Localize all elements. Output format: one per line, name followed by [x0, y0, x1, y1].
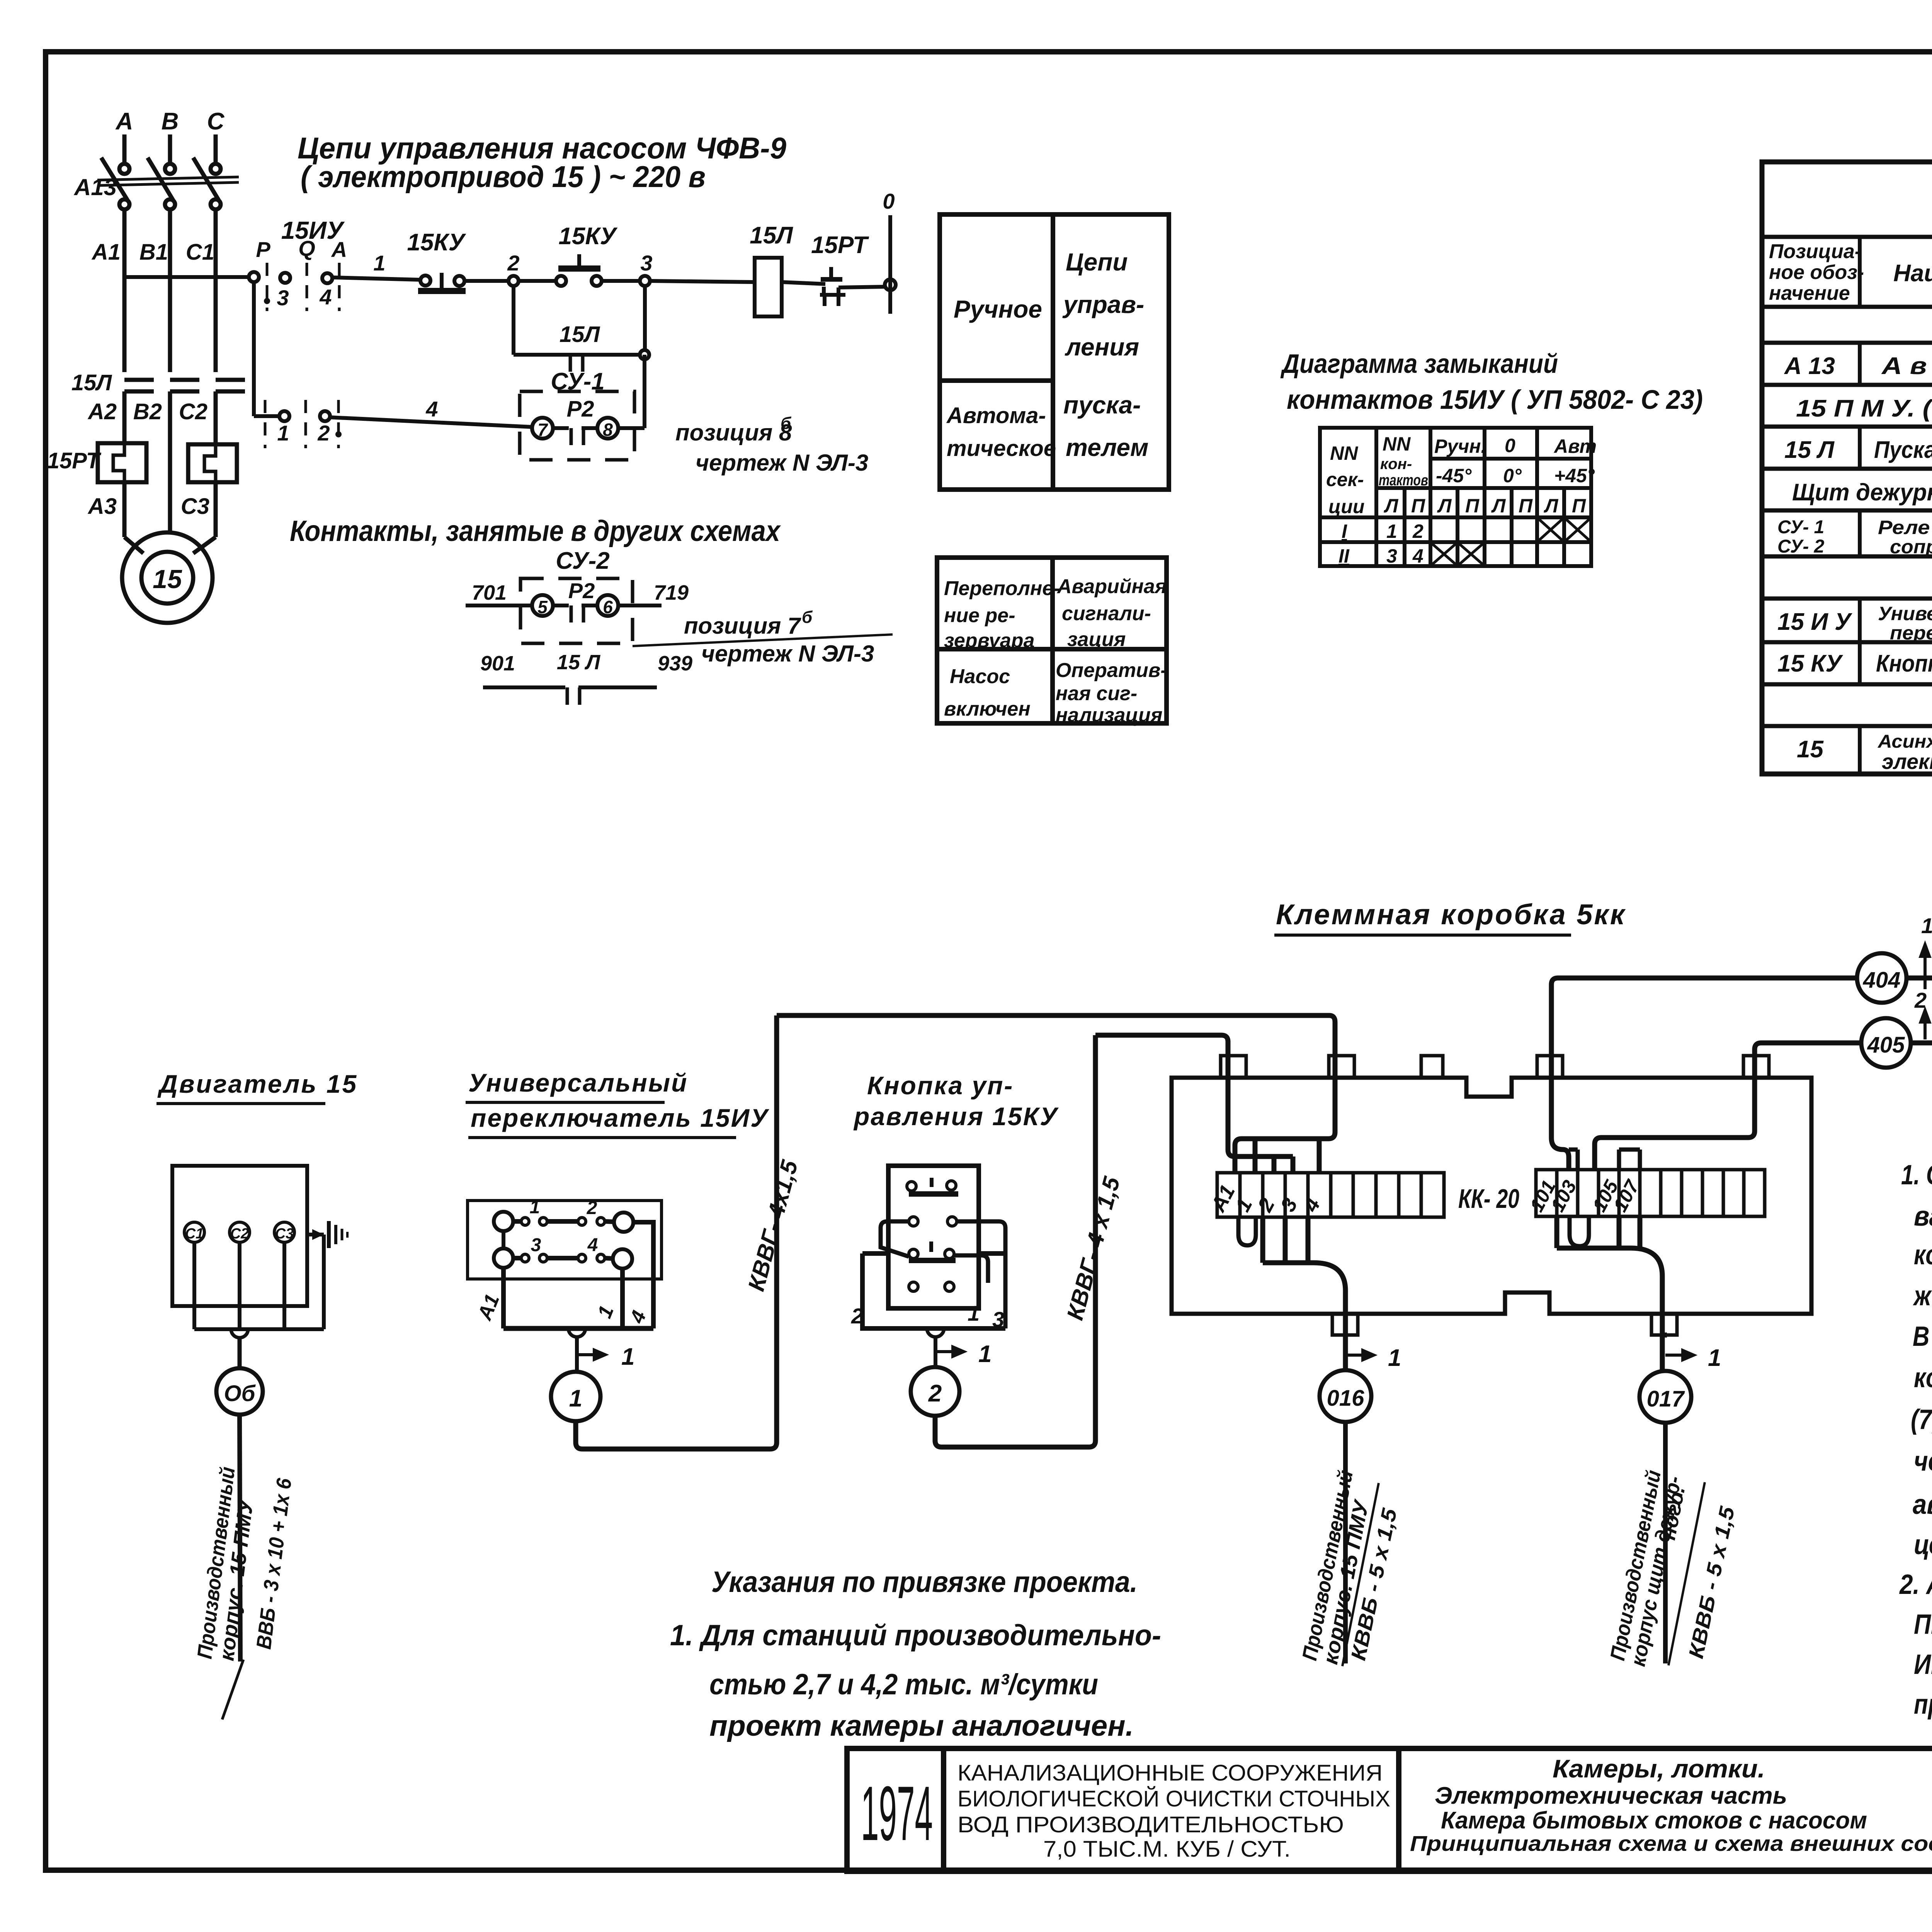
svg-text:I: I	[1342, 520, 1347, 542]
svg-text:б: б	[802, 608, 813, 627]
svg-text:позиция 8: позиция 8	[675, 420, 792, 446]
cable 016 down wire	[1343, 1422, 1348, 1663]
svg-text:В1: В1	[139, 240, 168, 265]
svg-text:Контакты, занятые в других: Контакты, занятые в других схемах	[290, 515, 781, 548]
wiring right	[957, 1221, 1005, 1328]
svg-text:Камеры, лотки.: Камеры, лотки.	[1553, 1754, 1765, 1783]
svg-text:1: 1	[1388, 1345, 1401, 1371]
svg-text:1: 1	[373, 251, 385, 275]
node 3	[640, 276, 650, 286]
svg-text:0: 0	[883, 189, 895, 213]
svg-text:4: 4	[587, 1235, 598, 1255]
cable id circle 016	[1320, 1370, 1371, 1422]
svg-text:901: 901	[480, 652, 515, 675]
svg-text:А2: А2	[87, 399, 117, 424]
wire phase C2	[214, 391, 218, 444]
svg-text:Универсальный: Универсальный	[1878, 603, 1932, 624]
svg-text:016: 016	[1327, 1386, 1365, 1411]
mounting tab	[1421, 1056, 1443, 1078]
svg-text:15 Л: 15 Л	[1784, 437, 1835, 463]
svg-text:1: 1	[569, 1385, 582, 1412]
svg-text:15: 15	[1797, 736, 1824, 763]
svg-text:2: 2	[1412, 520, 1423, 542]
ground conductor	[307, 1233, 324, 1236]
svg-text:Ручное: Ручное	[954, 295, 1042, 323]
wires below right strip to cable 017	[1557, 1216, 1640, 1248]
svg-text:тактов: тактов	[1379, 472, 1428, 489]
svg-text:ПМЕ-222, реле контроля с: ПМЕ-222, реле контроля сопротивлений	[1914, 1609, 1932, 1640]
svg-text:управ-: управ-	[1062, 291, 1144, 318]
svg-text:пуска-: пуска-	[1063, 391, 1141, 419]
svg-text:1: 1	[530, 1197, 540, 1218]
svg-text:Переполне-: Переполне-	[944, 577, 1060, 600]
component row dividers	[1860, 343, 1932, 385]
svg-text:Р2: Р2	[567, 396, 594, 422]
cable id circle 017	[1639, 1371, 1691, 1423]
terminal С2	[230, 1222, 250, 1242]
switch 15ИУ contact 1-2 (lower row)	[279, 411, 289, 421]
svg-text:чертеж N ЭЛ-3: чертеж N ЭЛ-3	[701, 641, 874, 667]
svg-text:Л: Л	[1491, 495, 1506, 517]
leader line to позиция 7б	[633, 634, 893, 646]
svg-text:1: 1	[1386, 520, 1397, 542]
svg-text:404: 404	[1863, 968, 1901, 993]
mounting tab	[1329, 1056, 1354, 1078]
svg-text:3: 3	[992, 1307, 1004, 1332]
button NO contact	[909, 1249, 918, 1259]
svg-text:Электротехническая часть: Электротехническая часть	[1435, 1782, 1787, 1809]
wire coil to 15РТ contact	[782, 282, 825, 284]
wire А1	[501, 1268, 506, 1328]
svg-text:6: 6	[603, 597, 613, 617]
jumper hook under right terminals	[1570, 1216, 1589, 1246]
bottom terminals	[909, 1282, 918, 1291]
svg-text:ние ре-: ние ре-	[944, 604, 1015, 627]
svg-text:NN: NN	[1330, 442, 1358, 464]
motor cable down wire	[240, 1415, 240, 1662]
svg-text:Л: Л	[1437, 495, 1452, 517]
svg-text:КАНАЛИЗАЦИОННЫЕ СООРУЖЕНИЯ: КАНАЛИЗАЦИОННЫЕ СООРУЖЕНИЯ	[957, 1760, 1383, 1786]
cable gland bump	[927, 1328, 944, 1337]
svg-text:Q: Q	[298, 236, 315, 260]
svg-text:Р: Р	[256, 237, 270, 262]
signal table (Переполнение/Аварийная)	[937, 558, 1167, 723]
svg-text:4: 4	[1412, 545, 1423, 567]
svg-text:позиция 7: позиция 7	[684, 613, 801, 639]
wire phase B1	[168, 209, 172, 372]
svg-text:ческого управления ; Н О кон: ческого управления ; Н О контакт (5,6) д…	[1914, 1446, 1932, 1477]
wire phase A3	[122, 482, 127, 537]
wire 1	[620, 1269, 625, 1328]
svg-text:чертеж N ЭЛ-3: чертеж N ЭЛ-3	[696, 450, 868, 476]
svg-text:Позициа-: Позициа-	[1769, 240, 1861, 263]
link between poles	[502, 1231, 505, 1248]
svg-text:017: 017	[1647, 1386, 1685, 1412]
svg-text:7: 7	[537, 420, 548, 440]
wire from button cable into box (wire B)	[1095, 1035, 1293, 1156]
svg-text:Л: Л	[1544, 495, 1559, 517]
svg-text:5: 5	[537, 597, 548, 617]
relay СУ-1 contact 7-8	[532, 418, 553, 439]
ground symbol	[327, 1221, 331, 1248]
contact row 1-2	[494, 1212, 513, 1231]
header column dividers	[1860, 237, 1932, 774]
svg-text:3: 3	[1386, 545, 1397, 567]
svg-text:1: 1	[1708, 1345, 1721, 1371]
closure X marks row I	[1539, 519, 1563, 541]
cable id circle 405	[1861, 1018, 1911, 1068]
arrow direction 1 (left cable)	[1345, 1350, 1374, 1360]
svg-text:15Л: 15Л	[560, 322, 600, 347]
svg-text:С2: С2	[179, 399, 207, 424]
wire stubs into terminals 103-107	[1578, 1150, 1640, 1170]
svg-text:939: 939	[658, 652, 692, 675]
svg-text:Реле контроля: Реле контроля	[1878, 517, 1932, 538]
svg-text:15 КУ: 15 КУ	[1777, 650, 1843, 677]
svg-text:Универсальный: Универсальный	[468, 1068, 688, 1097]
cable 404 wire right	[1906, 976, 1932, 981]
bottom cable gland right	[1651, 1314, 1677, 1335]
svg-text:переключатель: переключатель	[1890, 622, 1932, 644]
mounting tab	[1743, 1056, 1769, 1078]
svg-text:15 П М У. ( В производс: 15 П М У. ( В производственном корпусе)	[1796, 395, 1932, 422]
cable gland bump	[231, 1329, 248, 1338]
svg-text:1: 1	[621, 1344, 634, 1370]
svg-text:-45°: -45°	[1436, 465, 1472, 486]
svg-text:проект камеры аналогичен.: проект камеры аналогичен.	[709, 1709, 1134, 1742]
svg-text:3: 3	[277, 286, 289, 310]
svg-text:Кнопка уп-: Кнопка уп-	[867, 1071, 1014, 1100]
svg-text:П: П	[1465, 495, 1480, 517]
svg-text:П: П	[1572, 495, 1586, 517]
wire 4	[633, 1222, 653, 1328]
wire 404 into box	[1551, 978, 1857, 1170]
wire branch into terminal 2	[1272, 1156, 1277, 1173]
svg-text:переключатель 15ИУ: переключатель 15ИУ	[471, 1104, 769, 1132]
button outer box	[862, 1253, 1005, 1328]
svg-text:СУ- 1: СУ- 1	[1777, 517, 1824, 537]
contact closure diagram table	[1320, 428, 1591, 566]
svg-text:нализация: нализация	[1056, 704, 1163, 726]
jumper hook under terminals	[1238, 1217, 1256, 1245]
cable id circle 2	[911, 1367, 959, 1416]
wire phase C3	[214, 482, 218, 537]
svg-text:ное обоз-: ное обоз-	[1769, 261, 1864, 284]
svg-text:Диаграмма замыканий: Диаграмма замыканий	[1281, 349, 1558, 379]
svg-text:А3: А3	[87, 494, 117, 519]
svg-text:Цепи: Цепи	[1066, 248, 1128, 276]
svg-text:2: 2	[928, 1380, 942, 1407]
terminal strip КК-20 left block	[1217, 1173, 1444, 1217]
svg-text:вается как ручное, так: вается как ручное, так и автоматичес-	[1914, 1201, 1932, 1232]
svg-text:С1: С1	[186, 240, 214, 265]
svg-text:ции: ции	[1328, 496, 1364, 517]
arrow direction 1 (right cable)	[1665, 1350, 1694, 1360]
svg-text:1. Схемой управления насосом: 1. Схемой управления насосом предусматри…	[1901, 1160, 1932, 1190]
svg-text:1: 1	[968, 1301, 980, 1325]
arrow direction 1	[577, 1350, 605, 1359]
svg-text:П: П	[1519, 495, 1533, 517]
svg-text:15 И У: 15 И У	[1777, 609, 1852, 635]
terminal С1	[184, 1222, 204, 1242]
node 2	[509, 276, 519, 286]
svg-text:С3: С3	[181, 494, 209, 519]
svg-text:ВОД ПРОИЗВОДИТЕЛЬНОСТЬЮ: ВОД ПРОИЗВОДИТЕЛЬНОСТЬЮ	[957, 1812, 1344, 1837]
svg-text:0°: 0°	[1503, 465, 1522, 486]
svg-text:15РТ: 15РТ	[811, 232, 869, 259]
svg-text:701: 701	[472, 581, 507, 604]
cable run to terminal box	[576, 1015, 777, 1449]
svg-text:кое управление в зависимости: кое управление в зависимости от уровня	[1914, 1240, 1932, 1270]
wire to node 2	[464, 279, 509, 283]
cable gland bump	[568, 1328, 585, 1337]
svg-text:цепь аварийной сигнализац: цепь аварийной сигнализации.	[1914, 1529, 1932, 1560]
svg-text:719: 719	[654, 581, 689, 604]
svg-text:включен: включен	[944, 698, 1031, 720]
closure X marks row II	[1432, 544, 1456, 565]
circuit breaker A13	[119, 164, 129, 174]
project name	[957, 1760, 1390, 1862]
svg-text:А: А	[331, 237, 347, 262]
wire 4	[330, 417, 532, 427]
bottom cable gland left	[1332, 1314, 1358, 1335]
cable run to terminal box	[935, 1035, 1095, 1447]
svg-text:ления: ления	[1065, 333, 1139, 361]
svg-text:КК- 20: КК- 20	[1458, 1184, 1519, 1214]
svg-text:жидкости в резервуаре.: жидкости в резервуаре.	[1913, 1281, 1932, 1311]
svg-text:аварийного уровня СУ-2: аварийного уровня СУ-2 задействовать в	[1913, 1489, 1932, 1520]
button 15КУ inner body	[888, 1166, 979, 1308]
svg-text:Камера бытовых стоков с на: Камера бытовых стоков с насосом	[1441, 1807, 1867, 1834]
cable 405 wire right	[1911, 1041, 1932, 1046]
switch 15ИУ body	[468, 1201, 662, 1279]
svg-text:контактов 15ИУ ( УП 5802- С: контактов 15ИУ ( УП 5802- С 23)	[1287, 384, 1703, 415]
svg-text:15Л: 15Л	[71, 370, 112, 395]
wire phase C1	[214, 209, 218, 372]
svg-text:А13: А13	[73, 174, 117, 200]
svg-text:В2: В2	[133, 399, 162, 424]
cable id circle 404	[1857, 953, 1906, 1003]
wire phase A1	[122, 209, 127, 372]
svg-text:4: 4	[319, 285, 332, 309]
svg-text:15КУ: 15КУ	[407, 229, 466, 256]
svg-text:15Л: 15Л	[750, 222, 793, 249]
svg-text:1974: 1974	[861, 1770, 933, 1857]
cable id circle 1	[551, 1372, 600, 1421]
terminal strip КК-20 right block	[1536, 1170, 1765, 1216]
wire from bus down to lower contact row	[252, 282, 256, 416]
cable 016 labels	[1298, 1468, 1401, 1666]
arrow up 1/2	[1921, 945, 1929, 989]
svg-text:4: 4	[425, 397, 438, 421]
svg-text:б: б	[781, 414, 792, 433]
svg-text:В: В	[162, 108, 179, 135]
svg-text:2: 2	[851, 1304, 863, 1328]
svg-text:Р2: Р2	[568, 578, 595, 603]
svg-text:А: А	[115, 108, 133, 135]
title block	[847, 1748, 1932, 1871]
svg-text:2: 2	[587, 1198, 597, 1218]
svg-text:Принципиальная схема и схем: Принципиальная схема и схема внешних сое…	[1410, 1831, 1932, 1855]
svg-text:2: 2	[507, 251, 519, 275]
sheet name	[1410, 1754, 1932, 1855]
svg-text:В качестве датчика уровня: В качестве датчика уровня применено реле	[1913, 1321, 1932, 1352]
svg-text:начение: начение	[1769, 282, 1850, 304]
svg-text:15КУ: 15КУ	[558, 223, 617, 250]
svg-text:405: 405	[1867, 1032, 1905, 1058]
mounting tab	[1537, 1056, 1563, 1078]
svg-text:Наименование: Наименование	[1893, 260, 1932, 287]
svg-text:электродвигатель: электродвигатель	[1882, 749, 1932, 774]
svg-text:Насос: Насос	[950, 665, 1010, 688]
binding instructions	[670, 1566, 1161, 1742]
svg-text:С2: С2	[230, 1226, 249, 1242]
svg-text:3: 3	[531, 1235, 541, 1255]
svg-text:сопротивлениц: сопротивлениц	[1890, 536, 1932, 558]
terminal С3	[274, 1222, 294, 1242]
svg-text:Пускатель магнитный: Пускатель магнитный	[1874, 437, 1932, 463]
svg-text:ИКС - 2 Н учтены в заказно: ИКС - 2 Н учтены в заказной спецификации	[1914, 1649, 1932, 1680]
cable 017 down wire	[1663, 1423, 1668, 1663]
svg-text:С1: С1	[185, 1226, 204, 1242]
wire phase A2	[122, 391, 127, 443]
wire phase B2	[168, 391, 172, 533]
svg-text:1. Для станций производи: 1. Для станций производительно-	[670, 1619, 1161, 1652]
svg-text:1: 1	[277, 421, 289, 445]
terminal labels А1 1 2 3 4	[1206, 1181, 1325, 1216]
wire from contact 8 up to node	[618, 426, 645, 430]
svg-text:БИОЛОГИЧЕСКОЙ ОЧИСТКИ СТОЧНЫ: БИОЛОГИЧЕСКОЙ ОЧИСТКИ СТОЧНЫХ	[957, 1786, 1390, 1811]
svg-text:Клеммная коробка 5кк: Клеммная коробка 5кк	[1276, 898, 1626, 930]
svg-text:Аварийная: Аварийная	[1056, 575, 1167, 598]
parts list table (Перечень элементов)	[1762, 162, 1932, 774]
wire to cable circle	[575, 1337, 579, 1372]
svg-text:производственного корпуса.: производственного корпуса.	[1914, 1689, 1932, 1720]
wires from terminals to cable	[194, 1235, 324, 1329]
svg-text:А 13: А 13	[1784, 353, 1835, 379]
svg-text:8: 8	[603, 420, 613, 440]
svg-text:Л: Л	[1384, 495, 1399, 517]
motor terminal box	[172, 1166, 307, 1306]
motor cable labels	[193, 1466, 296, 1662]
svg-text:СУ-2: СУ-2	[556, 548, 610, 574]
svg-text:зация: зация	[1067, 628, 1126, 651]
svg-text:( электропривод 15 ) ~ 220 в: ( электропривод 15 ) ~ 220 в	[301, 160, 706, 194]
mode table (Ручное/Автоматическое)	[940, 214, 1169, 490]
svg-text:Двигатель 15: Двигатель 15	[157, 1070, 358, 1098]
svg-text:Щит дежурного ( В произ: Щит дежурного ( В производственном корпу…	[1792, 479, 1932, 506]
svg-text:ная сиг-: ная сиг-	[1056, 682, 1137, 705]
contact row 3-4	[494, 1248, 513, 1268]
wire to cable circle	[238, 1338, 242, 1368]
svg-text:зервуара: зервуара	[944, 629, 1034, 652]
svg-text:NN: NN	[1383, 433, 1411, 455]
svg-text:Автома-: Автома-	[946, 403, 1046, 428]
wires below left strip to cable 016	[1263, 1217, 1308, 1263]
svg-text:1: 1	[1921, 913, 1932, 938]
svg-text:А1: А1	[91, 240, 121, 265]
wire from switch cable into box (wire A)	[777, 1015, 1335, 1173]
svg-text:15: 15	[153, 565, 182, 594]
wire branch into terminal 4	[1317, 1139, 1322, 1173]
svg-text:контроля сопротивлений ИКС: контроля сопротивлений ИКС- 2Н. Н.О конт…	[1914, 1362, 1932, 1393]
wire 1	[332, 277, 420, 280]
cable 017 labels	[1606, 1468, 1739, 1668]
svg-text:сек-: сек-	[1326, 469, 1364, 490]
svg-text:7,0 ТЫС.М. КУБ / СУТ.: 7,0 ТЫС.М. КУБ / СУТ.	[1043, 1837, 1291, 1862]
wire branch into terminal 3	[1291, 1156, 1296, 1173]
svg-text:СУ- 2: СУ- 2	[1777, 536, 1825, 557]
wire 405 into box	[1595, 1043, 1861, 1170]
svg-text:С: С	[207, 108, 225, 135]
svg-text:тическое: тическое	[947, 436, 1056, 461]
svg-text:Ручн.: Ручн.	[1434, 435, 1486, 457]
svg-text:равления 15КУ: равления 15КУ	[853, 1102, 1059, 1131]
svg-text:+45°: +45°	[1554, 465, 1595, 486]
svg-text:15РТ: 15РТ	[47, 448, 102, 473]
svg-text:Указания по привязке проекта.: Указания по привязке проекта.	[711, 1566, 1138, 1599]
svg-text:Кнопка управления: Кнопка управления	[1876, 650, 1932, 677]
thermal relay 15РТ heater phase C	[188, 444, 237, 482]
svg-text:сигнали-: сигнали-	[1062, 602, 1151, 625]
arrow direction 1	[935, 1347, 964, 1356]
cable id circle Об	[216, 1368, 263, 1415]
svg-text:С3: С3	[275, 1226, 294, 1242]
wire control bus from phase A	[124, 275, 249, 279]
mounting tab	[1221, 1056, 1246, 1078]
svg-text:А в т о м а т: А в т о м а т	[1881, 353, 1932, 379]
cable bottom bus	[503, 1326, 653, 1331]
svg-text:2: 2	[317, 421, 330, 445]
svg-text:П: П	[1411, 495, 1425, 517]
svg-text:Авт: Авт	[1553, 435, 1597, 457]
svg-text:стью 2,7 и 4,2 тыс. м³/сутки: стью 2,7 и 4,2 тыс. м³/сутки	[709, 1668, 1098, 1701]
svg-text:II: II	[1338, 545, 1350, 567]
button NC contact	[907, 1182, 916, 1191]
terminal box outline	[1172, 1078, 1811, 1314]
svg-text:Об: Об	[224, 1381, 256, 1406]
middle terminals	[909, 1217, 918, 1226]
notes paragraph	[1899, 1160, 1932, 1720]
svg-text:(7,8) реле СУ-1 задействоват: (7,8) реле СУ-1 задействовать в цепь авт…	[1911, 1404, 1932, 1435]
wire branch into terminal 1	[1253, 1139, 1258, 1173]
relay СУ-2 contact 5-6	[466, 604, 532, 607]
svg-text:Оператив-: Оператив-	[1056, 659, 1167, 682]
svg-text:15 Л: 15 Л	[557, 651, 601, 674]
node on self-hold branch	[640, 350, 649, 359]
motor 15 (asynchronous motor)	[122, 532, 213, 623]
wire to cable circle	[934, 1337, 937, 1367]
svg-text:1: 1	[978, 1341, 992, 1367]
svg-text:0: 0	[1505, 435, 1515, 456]
svg-text:3: 3	[640, 251, 652, 275]
svg-text:2. Автомат А3124, пускате: 2. Автомат А3124, пускатель магнитный	[1899, 1569, 1932, 1600]
svg-text:телем: телем	[1066, 434, 1148, 461]
wire node3 to coil	[650, 281, 755, 282]
wiring loop left	[881, 1221, 909, 1257]
svg-text:кон-: кон-	[1380, 456, 1412, 473]
terminal labels 101 103 105 107	[1526, 1176, 1644, 1215]
